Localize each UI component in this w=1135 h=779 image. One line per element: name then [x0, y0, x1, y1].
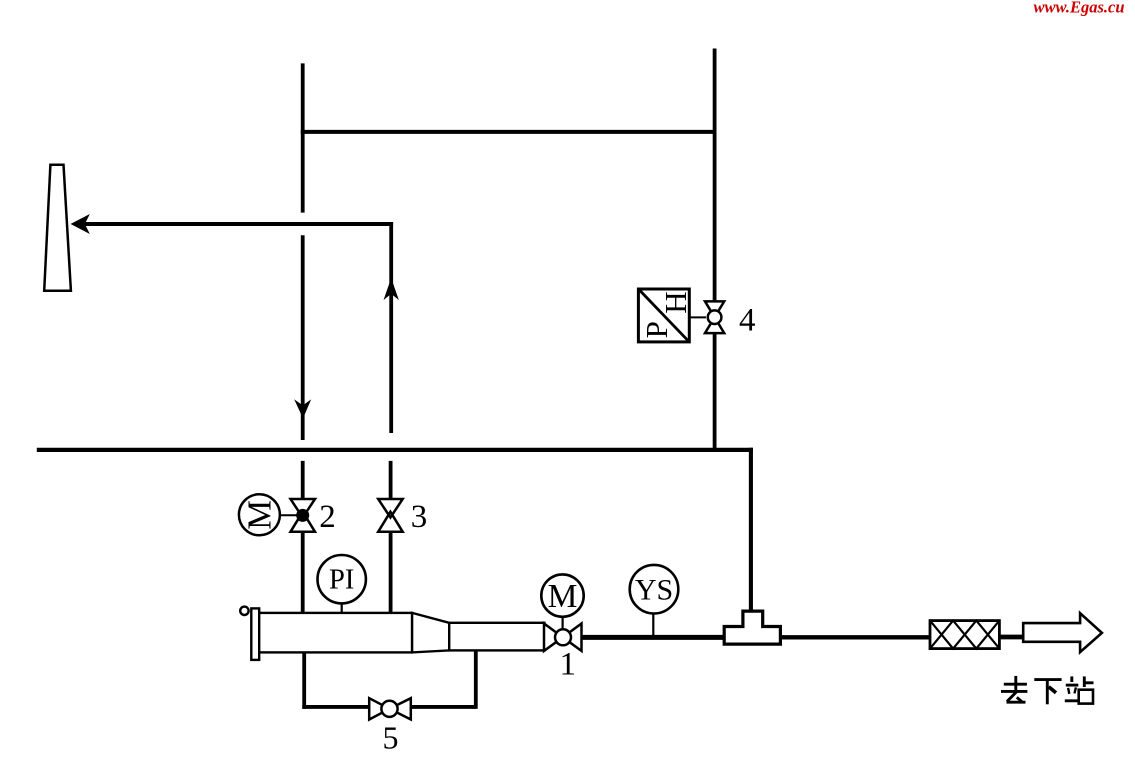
svg-text:YS: YS: [635, 573, 673, 606]
svg-text:2: 2: [319, 499, 336, 535]
svg-text:H: H: [658, 291, 693, 313]
svg-text:1: 1: [559, 647, 576, 683]
svg-text:PI: PI: [329, 565, 354, 596]
svg-text:4: 4: [739, 303, 756, 339]
svg-text:3: 3: [411, 499, 428, 535]
svg-text:M: M: [548, 578, 578, 615]
svg-text:5: 5: [383, 719, 399, 755]
svg-text:P: P: [639, 321, 674, 338]
svg-text:M: M: [242, 500, 279, 530]
svg-text:www.Egas.cu: www.Egas.cu: [1033, 0, 1124, 17]
